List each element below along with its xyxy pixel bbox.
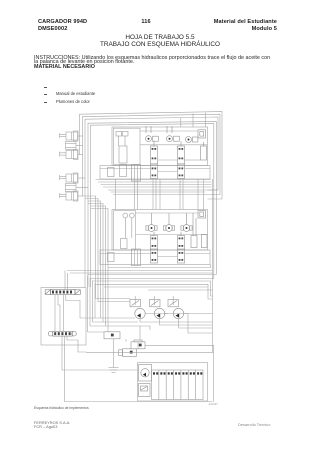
- spool B3: [191, 213, 207, 248]
- relief valve P3: [168, 300, 179, 307]
- manifold band A: [100, 164, 210, 181]
- pilot valve B3: [181, 213, 192, 231]
- pilot valve A1: [146, 126, 159, 142]
- spool A2: [178, 141, 185, 164]
- wire mid staircase left: [83, 196, 131, 332]
- title: [0, 35, 320, 48]
- caption: [34, 406, 89, 410]
- check valve B top right: [198, 211, 206, 219]
- spool A3: [201, 142, 207, 160]
- hydraulic tank assembly: [138, 363, 208, 402]
- footer right: [238, 422, 270, 427]
- pilot valve A3: [186, 137, 198, 143]
- bullet dashes: [44, 86, 48, 89]
- valve group A left section: [116, 132, 128, 177]
- cylinder pair 2 (lift): [60, 173, 89, 201]
- material necesario heading: [34, 65, 95, 70]
- wire valve1 pilots drop: [65, 271, 95, 333]
- footer left: [34, 421, 70, 429]
- pump 2: [154, 308, 164, 318]
- check valve block C2: [119, 349, 137, 357]
- cylinder pair 1 (tilt): [60, 131, 84, 160]
- svg-text:143-97: 143-97: [209, 402, 219, 406]
- valve group B outer box: [112, 210, 208, 251]
- wire right bus: [212, 179, 214, 352]
- header right: [156, 19, 277, 32]
- check valve A top right: [198, 130, 206, 138]
- valve group B left section: [121, 213, 135, 248]
- directional valve V1: [45, 289, 80, 294]
- pump 1: [135, 307, 145, 319]
- pump 3: [173, 308, 183, 318]
- valve group A outer box: [112, 127, 208, 166]
- tank relief: [139, 384, 151, 397]
- wire top bus: [80, 112, 223, 287]
- spool B2: [178, 232, 185, 250]
- wire pump outputs: [80, 296, 213, 333]
- header left: [38, 19, 87, 32]
- wire interband horizontals: [96, 180, 219, 195]
- bullet text: [56, 91, 95, 96]
- pilot valve A2: [167, 126, 180, 142]
- wire interband verticals: [116, 179, 204, 210]
- wire below band B horizontals: [67, 265, 216, 300]
- wire V1 to V2 and drains: [55, 295, 213, 402]
- header center page number: [116, 19, 176, 26]
- spool B1: [151, 232, 158, 250]
- tank line with symbol: [109, 339, 119, 373]
- pilot valve B2: [163, 213, 174, 231]
- wire check block connections: [86, 326, 214, 402]
- control valve enclosure: [41, 288, 86, 346]
- check valve block C1: [131, 340, 145, 349]
- instructions: [34, 56, 314, 66]
- wire cylinder feed verticals: [80, 131, 89, 287]
- pilot supply box: [104, 332, 120, 339]
- relief valve P1: [130, 300, 141, 307]
- directional valve V2: [48, 331, 76, 336]
- manifold band B: [100, 249, 210, 266]
- tank pump motor: [139, 365, 152, 382]
- filter bank: [152, 370, 204, 400]
- spool A1: [151, 141, 158, 164]
- pilot valve B1: [146, 213, 157, 231]
- relief valve P2: [150, 300, 161, 307]
